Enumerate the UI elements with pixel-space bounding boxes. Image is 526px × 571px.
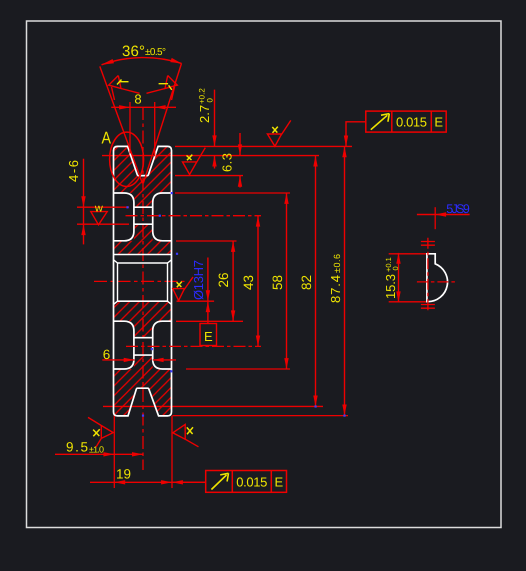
upper right recess [153,193,172,241]
dimension 9.5 +-1.0 [55,440,143,457]
svg-text:43: 43 [241,275,256,290]
groove cone extension left [100,66,143,183]
svg-text:E: E [274,474,283,489]
bottom left face extension [113,416,115,488]
svg-text:±0.6: ±0.6 [332,254,342,273]
upper web hole [134,207,153,224]
hatch lower web above hole [134,321,153,338]
roughness mark w [91,203,107,225]
dimension 82 [299,156,318,407]
svg-text:6.3: 6.3 [220,153,235,172]
roughness mark bottom right [173,424,199,446]
dimension 19 [90,467,206,485]
dimension 15.3 +0.1/0 [383,253,426,302]
roughness mark cone left [109,76,140,101]
detail horizontal centerline [417,281,456,283]
svg-text:9.5: 9.5 [66,440,88,455]
groove cone extension right [143,63,181,183]
top face extension line [175,145,352,147]
vertical centerline [142,107,144,470]
dimension 5JS9 [417,202,470,229]
bore chamfer diagonals [114,260,172,305]
dimension 6.3 [175,133,243,188]
svg-text:0.015: 0.015 [396,115,427,130]
svg-text:0: 0 [206,98,215,103]
hatch top rim [114,146,172,193]
runout FCF top [344,111,446,146]
svg-text:w: w [94,203,103,215]
lower right recess [153,321,172,369]
hatch hub below bore [114,301,172,321]
bore lines [118,263,168,301]
roughness mark bore [173,277,193,301]
dimension 8 [111,92,176,157]
svg-text:36°: 36° [122,43,145,60]
hatch upper web below hole [134,224,153,241]
angular dimension 36 deg arc [102,58,182,65]
dimension 87.4 +-0.6 [172,146,348,415]
dimension 4-6 [66,159,129,245]
svg-text:8: 8 [134,92,141,107]
upper hole centerline / 43 top extension [126,215,262,217]
bore chamfer edge lines [118,263,168,301]
hatch lower web below hole [134,355,153,369]
svg-text:15.3: 15.3 [383,274,398,299]
svg-text:5JS9: 5JS9 [446,202,470,216]
hatch bottom rim [114,369,172,416]
svg-text:2.7: 2.7 [197,105,212,123]
svg-text:Ø13H7: Ø13H7 [191,260,206,300]
detail vertical centerline [427,238,429,313]
node markers [126,192,345,417]
svg-text:6: 6 [103,347,111,362]
lower hole centerline / 43 bottom extension [126,345,261,347]
pitch line bottom [103,405,323,407]
svg-text:0: 0 [391,266,400,270]
hatch hub above keyway [114,241,172,255]
upper left recess [114,193,134,241]
roughness mark cone right [147,76,178,101]
datum E box [200,324,217,346]
lower left recess [114,321,134,369]
svg-text:0.015: 0.015 [236,474,267,489]
svg-text:E: E [434,115,443,130]
detail tick marks top [421,242,435,246]
svg-text:±0.5°: ±0.5° [145,47,166,58]
svg-text:4-6: 4-6 [66,160,81,182]
roughness mark bottom left [88,417,113,447]
dimension 43 [241,216,260,347]
detail tick marks bottom [421,305,435,309]
arc arrow right [170,58,181,64]
roughness mark OD top [267,120,290,146]
svg-text:26: 26 [216,273,231,288]
detail circle A [110,132,144,186]
horizontal axis centerline [94,280,185,282]
hatch upper web above hole [134,193,153,207]
keyway top line [114,254,172,256]
svg-text:87.4: 87.4 [328,275,343,303]
dimension 58 [175,193,290,369]
dimension 2.7 +0.2/0 [197,88,217,169]
bottom right face extension [171,416,173,488]
svg-text:82: 82 [299,275,314,290]
dimension 6 web [102,347,176,362]
roughness mark groove side [183,148,206,175]
arc arrow left [102,59,115,65]
runout FCF bottom [172,471,287,493]
dimension dia 13H7 [177,258,215,324]
detail view outline [427,254,448,302]
pitch line top [102,155,319,157]
svg-text:E: E [204,329,213,344]
lower web hole [134,338,153,355]
svg-text:58: 58 [270,275,285,290]
svg-text:A: A [101,129,111,148]
svg-text:19: 19 [116,467,131,482]
dimension 26 [176,241,243,321]
pulley outer outline [114,146,172,416]
